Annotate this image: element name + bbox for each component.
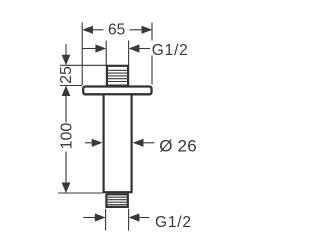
bottom thread (hatched) [106,194,129,207]
ceiling plate [83,87,151,95]
extension line plate-top level [60,85,82,87]
extension line right of 65 dim [151,22,153,40]
bottom extension line right [128,209,130,231]
svg-text:G1/2: G1/2 [155,214,192,231]
svg-text:65: 65 [108,22,125,39]
dim line 65 [90,29,104,31]
top thread (hatched) [106,66,128,86]
arrow G1/2 bottom left (points right) [95,213,106,221]
arrow dia26 right (points left) [133,139,144,147]
arrow 25/100 shared (points up) [62,86,71,97]
svg-text:100: 100 [58,123,75,150]
arrow dia26 left (points right) [92,139,103,147]
svg-text:Ø 26: Ø 26 [159,137,197,156]
svg-text:G1/2: G1/2 [152,42,189,59]
dim line G1/2 bottom [83,217,96,219]
dim line G1/2 top [82,48,98,50]
arrow 25 top (points down) [62,55,71,66]
arrow G1/2 top left (points right) [95,44,106,52]
bottom extension line left [105,209,107,231]
arrow 65 left [82,26,93,34]
extension line pipe-bottom level [58,192,103,194]
extension line thread top left [105,41,107,66]
vertical dim line segments (25 / 100) [65,44,67,58]
extension line left of 65 dim [81,22,83,85]
arrow G1/2 bottom right (points left) [129,213,140,221]
extension line thread-top level [60,64,106,66]
arrow 65 right [142,26,153,34]
extension line thread top right [128,41,130,66]
arrow G1/2 top right (points left) [129,44,140,52]
svg-text:25: 25 [58,66,75,84]
pipe [104,95,132,192]
arrow 100 bottom (points down) [62,183,71,194]
dim line diameter 26 [85,142,93,144]
